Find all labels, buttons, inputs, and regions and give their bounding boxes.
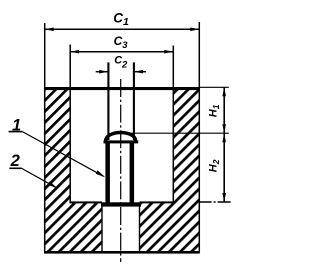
base hole right edge: [139, 205, 141, 252]
centerline: [120, 79, 122, 262]
underline of label 1: [9, 131, 23, 133]
block body left (hatched wall + base), component 2: [45, 90, 102, 251]
H1 top arrow (up): [222, 87, 226, 96]
bottom face: [44, 251, 200, 254]
C2 left arrow (pointing right): [99, 70, 108, 74]
H1 bottom arrow (down): [222, 124, 226, 133]
dimension C2 right segment: [134, 71, 146, 73]
leader arrow 1: [22, 132, 103, 177]
detonator cap dome, component 1: [106, 133, 136, 141]
C3 right arrow: [164, 50, 173, 54]
C1 left arrow: [45, 28, 54, 32]
C3 left arrow: [70, 50, 79, 54]
inner left cavity edge + C3 extension: [69, 45, 71, 203]
detonator body left wall: [105, 143, 110, 203]
dimension C1 line: [45, 28, 199, 30]
H2 bottom arrow (down): [222, 193, 226, 202]
inner right cavity edge + C3 extension: [172, 46, 174, 203]
dimension C3 line: [71, 51, 174, 53]
guide well left line + C2 left extension: [107, 62, 109, 140]
cavity floor right segment: [140, 201, 175, 203]
detonator bottom rim: [101, 202, 141, 206]
base hole left edge: [101, 205, 103, 252]
H extension line bottom (floor level): [200, 201, 231, 203]
H extension line top: [200, 86, 229, 88]
outer right edge + C1 right extension: [198, 22, 200, 252]
leader 1 arrowhead: [96, 170, 105, 177]
H2 top arrow (up): [222, 133, 226, 142]
outer left edge + C1 left extension: [44, 23, 46, 252]
cavity floor left segment: [70, 201, 103, 203]
underline of label 2: [9, 167, 21, 169]
svg-text:2: 2: [10, 152, 20, 170]
block body right (hatched wall + base), component 2: [140, 90, 200, 251]
C2 right arrow (pointing left): [134, 70, 143, 74]
H extension line middle (cap apex level): [130, 132, 229, 134]
leader arrow 2: [22, 168, 56, 187]
top face plate: [44, 87, 200, 90]
C1 right arrow: [190, 28, 199, 32]
dimension C2 left segment: [96, 71, 108, 73]
detonator cap base bar: [104, 140, 139, 143]
detonator body right wall: [130, 143, 135, 203]
dimension H vertical line: [223, 87, 225, 202]
guide well right line + C2 right extension: [133, 62, 135, 140]
leader 2 arrowhead: [48, 181, 57, 188]
